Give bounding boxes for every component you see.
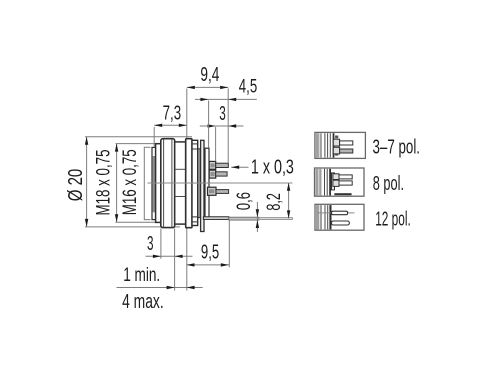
- rear body inner lines: [192, 144, 198, 222]
- icon 1 box: [315, 132, 366, 158]
- contact hex 3: [208, 187, 217, 195]
- connector neck: [175, 142, 186, 224]
- contact hex 2: [209, 170, 216, 178]
- svg-text:7,3: 7,3: [163, 103, 182, 125]
- dim line 7,3: [154, 124, 187, 127]
- dim line 9,5: [187, 263, 230, 266]
- connector front rim: [152, 147, 156, 219]
- leader 1 x 0,3: [231, 166, 248, 169]
- pin 1: [216, 163, 229, 167]
- pin 2: [216, 172, 227, 176]
- svg-text:9,5: 9,5: [201, 242, 219, 264]
- svg-text:1 min.: 1 min.: [123, 265, 160, 286]
- svg-text:3: 3: [219, 103, 226, 125]
- svg-text:M16 x 0,75: M16 x 0,75: [120, 149, 141, 215]
- pin 3: [216, 190, 229, 194]
- dim 8,2 vertical: [287, 183, 290, 219]
- dim Ø20 vertical: [85, 137, 192, 227]
- pcb band thick part: [229, 217, 259, 220]
- connector rear body: [192, 140, 198, 225]
- dim line 9,4: [187, 86, 228, 89]
- solder lug: [203, 217, 228, 220]
- svg-text:4,5: 4,5: [239, 75, 258, 97]
- nut inner lines: [164, 139, 172, 227]
- connector nut: [161, 139, 175, 228]
- dim M18 vertical: [115, 144, 162, 223]
- dim line 4,5: [195, 98, 257, 101]
- neck inner lines: [175, 169, 186, 196]
- centerline: [148, 182, 293, 184]
- svg-text:8 pol.: 8 pol.: [373, 173, 404, 195]
- bracket plate: [201, 140, 204, 231]
- svg-text:3: 3: [147, 233, 154, 255]
- svg-text:1 x 0,3: 1 x 0,3: [251, 156, 294, 178]
- dim M16 bracket: [144, 147, 150, 219]
- dim 0,6 vertical: [256, 202, 259, 232]
- svg-text:0,6: 0,6: [233, 192, 255, 210]
- svg-text:4 max.: 4 max.: [122, 291, 164, 313]
- svg-text:Ø 20: Ø 20: [65, 169, 87, 202]
- dim line 3 top: [200, 124, 244, 127]
- gasket: [198, 149, 201, 218]
- icon 3 box: [315, 204, 364, 230]
- icon 2 box: [315, 168, 365, 196]
- pcb band thin part: [259, 218, 293, 220]
- contact hex 1: [209, 161, 216, 169]
- connector M18 section: [156, 144, 163, 223]
- dim line 3 bottom: [146, 255, 193, 258]
- insulator disc: [205, 148, 209, 217]
- svg-text:12 pol.: 12 pol.: [375, 208, 411, 230]
- extension lines bottom: [161, 221, 229, 291]
- svg-text:8,2: 8,2: [264, 193, 285, 211]
- connector flange: [186, 139, 192, 228]
- dim line 1min 4max: [117, 286, 203, 289]
- front rim inner bar: [153, 156, 156, 212]
- svg-text:9,4: 9,4: [200, 64, 219, 86]
- extension lines top: [154, 89, 228, 163]
- svg-text:M18 x 0,75: M18 x 0,75: [94, 150, 115, 216]
- svg-text:3–7 pol.: 3–7 pol.: [373, 137, 421, 159]
